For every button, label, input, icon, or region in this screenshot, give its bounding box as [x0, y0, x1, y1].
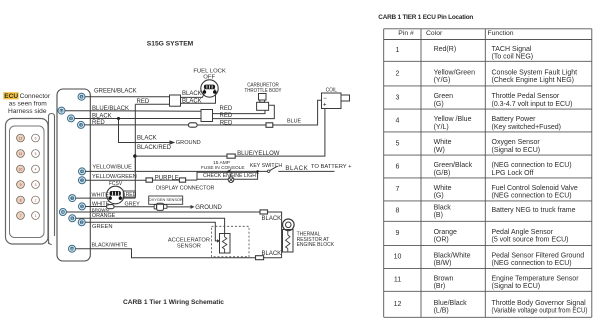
connector J1 fuel lock — [170, 95, 181, 106]
fuel lock solenoid valve — [201, 80, 218, 97]
svg-text:2: 2 — [35, 198, 37, 202]
svg-text:TO BATTERY +: TO BATTERY + — [311, 164, 352, 170]
connector pin 6 — [32, 134, 40, 142]
svg-text:(To coil NEG): (To coil NEG) — [492, 54, 534, 61]
wire RED throttle 1 — [213, 110, 266, 113]
table row pin 6 — [396, 162, 572, 177]
oxygen sensor label box — [149, 196, 183, 204]
connector pin 8 — [17, 196, 25, 204]
wire BLUE/YELLOW to coil positive — [135, 155, 227, 157]
wire PURPLE — [153, 179, 180, 181]
svg-text:(Y/L): (Y/L) — [434, 124, 449, 131]
svg-text:Yellow /Blue: Yellow /Blue — [434, 116, 472, 123]
ECU connector shell — [6, 119, 49, 245]
svg-text:Engine Temperature Sensor: Engine Temperature Sensor — [492, 276, 580, 283]
table row pin 3 — [396, 93, 573, 108]
wire RED tap to fuel-lock connector — [135, 103, 169, 105]
svg-text:(B/W): (B/W) — [434, 260, 452, 267]
inline connector on BROWN wire — [260, 210, 268, 214]
svg-text:BLACK: BLACK — [137, 135, 157, 141]
svg-text:Blue/Black: Blue/Black — [434, 300, 468, 307]
connector J2 carburetor throttle body — [201, 110, 213, 122]
key switch — [268, 170, 270, 172]
table row pin 10 — [394, 253, 585, 268]
wiper arrow — [217, 239, 220, 242]
connector pin 4 — [32, 165, 40, 173]
svg-text:(L/B): (L/B) — [434, 308, 449, 315]
connector pin 7 — [17, 212, 25, 220]
svg-text:5: 5 — [35, 152, 37, 156]
svg-text:Throttle Body Governor Signal: Throttle Body Governor Signal — [492, 300, 587, 307]
svg-text:BLACK/WHITE: BLACK/WHITE — [92, 242, 128, 248]
table row pin 8 — [396, 205, 576, 220]
wire BLACK to thermal resistor — [268, 212, 282, 258]
inline connector on BLUE wire — [266, 123, 273, 128]
svg-text:11: 11 — [19, 152, 23, 156]
svg-text:5: 5 — [396, 140, 400, 147]
connector pin 11 — [17, 150, 25, 158]
svg-text:(G/B): (G/B) — [434, 170, 451, 177]
inline connector on WHITE wire — [107, 205, 114, 209]
svg-text:11: 11 — [61, 210, 64, 214]
label ECU Connector as seen from Harness side — [3, 92, 51, 115]
svg-text:(W): (W) — [434, 147, 445, 154]
connector pin 1 — [32, 212, 40, 220]
svg-text:6: 6 — [35, 136, 37, 140]
svg-text:10: 10 — [19, 167, 23, 171]
inline connector on RED wire — [189, 123, 198, 127]
wire oxygen sensor to ground — [167, 206, 191, 208]
svg-text:(Br): (Br) — [434, 283, 446, 290]
svg-text:BLACK: BLACK — [182, 99, 202, 105]
thermal resistor body — [283, 230, 294, 253]
junction on BLACK wire — [117, 117, 120, 120]
svg-text:GREY: GREY — [125, 201, 141, 207]
svg-text:CARB 1 TIER 1 ECU Pin Location: CARB 1 TIER 1 ECU Pin Location — [378, 14, 473, 21]
svg-text:Red(R): Red(R) — [434, 46, 457, 53]
svg-text:ENGINE BLOCK: ENGINE BLOCK — [297, 242, 335, 248]
svg-text:YELLOW/BLUE: YELLOW/BLUE — [92, 164, 132, 170]
power vertical line — [134, 104, 136, 198]
wire BLACK branch to ground — [119, 119, 170, 143]
svg-text:LPG Lock Off: LPG Lock Off — [492, 170, 534, 177]
svg-text:12: 12 — [60, 109, 64, 113]
svg-text:1: 1 — [396, 47, 400, 54]
svg-text:Oxygen Sensor: Oxygen Sensor — [492, 139, 541, 146]
ECU pin 4 — [79, 168, 86, 175]
svg-text:3: 3 — [396, 94, 400, 101]
svg-text:Black: Black — [434, 205, 452, 212]
svg-text:Battery Power: Battery Power — [492, 116, 537, 123]
table row pin 9 — [396, 229, 569, 244]
svg-text:(OR): (OR) — [434, 237, 449, 244]
svg-text:Harness side: Harness side — [8, 108, 47, 115]
svg-text:SENSOR: SENSOR — [177, 243, 201, 249]
table row pin 4 — [396, 116, 561, 131]
svg-text:(0.3-4.7 volt input to ECU): (0.3-4.7 volt input to ECU) — [492, 101, 573, 108]
check engine light box — [197, 171, 258, 180]
svg-text:GREEN: GREEN — [92, 224, 113, 230]
wire YELLOW/GREEN pin2 to display connector — [86, 179, 147, 181]
svg-text:BLACK: BLACK — [92, 114, 112, 120]
wire RED pin1 TACH to coil — [85, 124, 189, 126]
svg-text:BLUE: BLUE — [287, 119, 301, 125]
ECU pin 8 — [68, 115, 75, 122]
wire BLACK to battery — [278, 170, 334, 172]
svg-text:8: 8 — [396, 208, 400, 215]
svg-text:YELLOW/GREEN: YELLOW/GREEN — [92, 174, 137, 180]
connector box around RED label — [123, 191, 135, 197]
svg-text:Green/Black: Green/Black — [434, 162, 473, 169]
connector pin 5 — [32, 150, 40, 158]
svg-text:Throttle Pedal Sensor: Throttle Pedal Sensor — [492, 93, 560, 100]
connector pin 2 — [32, 196, 40, 204]
ECU pin table grid — [384, 29, 592, 318]
svg-text:(Check Engine Light NEG): (Check Engine Light NEG) — [492, 77, 574, 84]
svg-text:(NEG connection to ECU): (NEG connection to ECU) — [492, 162, 572, 169]
svg-text:ORANGE: ORANGE — [92, 213, 116, 219]
harness-side connector face frame — [57, 89, 90, 261]
svg-text:6: 6 — [396, 163, 400, 170]
wire BLACK fuel lock right — [181, 94, 216, 104]
svg-text:Pedal Angle Sensor: Pedal Angle Sensor — [492, 229, 554, 236]
svg-text:BLACK: BLACK — [182, 91, 202, 97]
ECU pin 5 — [79, 203, 86, 210]
ECU connector side bracket — [49, 114, 55, 245]
ECU pin 11 — [59, 209, 66, 216]
svg-text:Orange: Orange — [434, 229, 457, 236]
svg-text:Color: Color — [426, 30, 443, 37]
svg-text:TACH Signal: TACH Signal — [492, 46, 532, 53]
check engine lamp — [228, 171, 234, 182]
svg-text:(G): (G) — [434, 101, 444, 108]
svg-text:Green: Green — [434, 93, 454, 100]
wire WHITE pin7 to FCSV — [76, 197, 109, 199]
svg-text:(Signal to ECU): (Signal to ECU) — [492, 283, 541, 290]
svg-text:(B): (B) — [434, 212, 443, 219]
svg-text:WHITE: WHITE — [92, 193, 110, 199]
wire BLUE/BLACK pin12 to throttle connector — [65, 110, 201, 113]
svg-text:CARB 1 Tier 1 Wiring Schematic: CARB 1 Tier 1 Wiring Schematic — [123, 299, 224, 306]
wire BLACK bottom to thermal resistor — [264, 257, 282, 259]
ECU connector inner face — [10, 126, 45, 238]
svg-text:GREEN/BLACK: GREEN/BLACK — [94, 89, 137, 95]
svg-text:BLACK/RED: BLACK/RED — [137, 145, 172, 151]
ECU pin 12 — [58, 107, 65, 114]
svg-text:9: 9 — [20, 183, 22, 187]
svg-text:Battery NEG to truck frame: Battery NEG to truck frame — [492, 207, 576, 214]
wire YELLOW/BLUE pin4 battery power — [86, 170, 268, 172]
svg-text:(NEG connection to ECU): (NEG connection to ECU) — [492, 193, 572, 200]
table row pin 11 — [394, 276, 579, 291]
svg-text:BLUE/YELLOW: BLUE/YELLOW — [237, 151, 280, 157]
wire BLACK fuel lock left — [181, 94, 205, 98]
svg-text:Console System Fault Light: Console System Fault Light — [492, 69, 578, 76]
ECU pin 3 — [78, 219, 85, 226]
wire GREY to oxygen sensor — [114, 206, 154, 208]
svg-text:OXYGEN SENSOR: OXYGEN SENSOR — [149, 197, 183, 202]
svg-text:10: 10 — [394, 254, 402, 261]
fuse 15 AMP symbol — [227, 169, 231, 173]
display connector half 1 — [146, 178, 153, 182]
svg-text:Fuel Control Solenoid Valve: Fuel Control Solenoid Valve — [492, 185, 578, 192]
wire BLUE to coil negative — [273, 100, 322, 125]
svg-text:Pin #: Pin # — [398, 30, 414, 37]
svg-text:7: 7 — [20, 214, 22, 218]
svg-text:RED: RED — [137, 99, 150, 105]
svg-text:8: 8 — [20, 198, 22, 202]
ECU pin 7 — [69, 195, 76, 202]
svg-text:4: 4 — [396, 117, 400, 124]
svg-text:Connector: Connector — [20, 93, 51, 100]
table row pin 5 — [396, 139, 541, 154]
svg-text:+: + — [323, 102, 327, 109]
accelerator sensor dashed box — [212, 226, 250, 256]
table row pin 12 — [394, 300, 588, 315]
svg-text:COIL: COIL — [326, 88, 337, 94]
svg-text:Pedal Sensor Filtered Ground: Pedal Sensor Filtered Ground — [492, 253, 585, 260]
connector pin 10 — [17, 165, 25, 173]
svg-text:3: 3 — [35, 183, 37, 187]
svg-text:S15G SYSTEM: S15G SYSTEM — [147, 41, 194, 48]
svg-text:GROUND: GROUND — [176, 140, 201, 146]
svg-text:9: 9 — [396, 230, 400, 237]
svg-text:BLACK: BLACK — [262, 251, 282, 257]
wire WHITE pin5 to oxygen sensor — [86, 206, 107, 208]
inline connector on bottom BLACK wire — [256, 256, 264, 260]
wire BLUE/YELLOW right segment — [235, 109, 325, 157]
thermal resistor ring terminal — [283, 219, 295, 231]
wire ORANGE pin9 to accelerator sensor — [76, 218, 225, 233]
svg-text:12: 12 — [19, 136, 23, 140]
svg-text:OFF: OFF — [203, 75, 215, 81]
wire BLACK pin8 to throttle connector — [75, 118, 202, 120]
ECU pin 6 — [78, 93, 85, 100]
svg-text:as seen from: as seen from — [9, 101, 48, 108]
svg-text:RED: RED — [92, 120, 105, 126]
svg-text:1: 1 — [35, 214, 37, 218]
svg-text:GROUND: GROUND — [195, 205, 222, 211]
ECU pin 9 — [69, 215, 76, 222]
table row pin 1 — [396, 46, 534, 61]
svg-text:White: White — [434, 139, 452, 146]
svg-text:2: 2 — [396, 70, 400, 77]
table row pin 7 — [396, 185, 578, 200]
connector pin 3 — [32, 181, 40, 189]
wire GREEN pin3 to accelerator wiper — [85, 222, 217, 241]
connector pin 9 — [17, 181, 25, 189]
svg-text:RED: RED — [126, 192, 137, 198]
table row pin 2 — [396, 69, 578, 84]
svg-text:10: 10 — [70, 247, 74, 251]
wire BROWN pin11 engine temperature — [66, 211, 260, 213]
svg-text:KEY SWITCH: KEY SWITCH — [250, 163, 282, 169]
svg-text:Black/White: Black/White — [434, 253, 471, 260]
power vertical to BLUE/YELLOW — [134, 156, 136, 171]
wire RED FCSV to power — [122, 197, 135, 199]
FCSV fuel control solenoid valve — [107, 186, 125, 204]
wire RED throttle 2 — [213, 105, 275, 118]
svg-text:7: 7 — [396, 186, 400, 193]
ground arrow — [170, 140, 176, 144]
display connector half 2 — [179, 178, 185, 182]
svg-text:11: 11 — [394, 277, 401, 284]
wire RED to second connector — [197, 124, 266, 126]
junction battery power — [133, 154, 136, 157]
junction at check engine box right — [256, 170, 258, 172]
ground arrow oxygen sensor — [191, 205, 195, 209]
svg-text:(Signal to ECU): (Signal to ECU) — [492, 147, 541, 154]
svg-text:(Y/G): (Y/G) — [434, 77, 451, 84]
connector pin 12 — [17, 134, 25, 142]
oxygen sensor symbol — [154, 203, 167, 210]
svg-text:ECU: ECU — [4, 93, 18, 100]
svg-text:Yellow/Green: Yellow/Green — [434, 69, 475, 76]
svg-text:Brown: Brown — [434, 276, 454, 283]
wire GREEN/BLACK pin6 to fuel-lock connector — [85, 96, 170, 98]
ECU pin 1 — [78, 121, 85, 128]
svg-text:4: 4 — [35, 167, 37, 171]
svg-text:RED: RED — [220, 121, 233, 127]
coil — [322, 93, 350, 109]
wire BLACK/WHITE pin10 filtered ground — [76, 249, 256, 258]
svg-text:BLACK: BLACK — [285, 165, 308, 172]
svg-text:FUSE IN CONSOLE: FUSE IN CONSOLE — [201, 165, 245, 171]
svg-text:(Key switched+Fused): (Key switched+Fused) — [492, 124, 561, 131]
inline connector on BLUE/YELLOW — [227, 154, 235, 158]
wire PURPLE to check engine light — [186, 179, 197, 181]
accelerator sensor potentiometer — [220, 234, 231, 254]
svg-text:(Variable voltage output from: (Variable voltage output from ECU) — [492, 308, 588, 315]
carburetor throttle body symbol — [257, 94, 269, 111]
svg-text:White: White — [434, 185, 452, 192]
svg-text:RED: RED — [220, 113, 233, 119]
svg-text:(5 volt source from ECU): (5 volt source from ECU) — [492, 237, 569, 244]
svg-text:BROWN: BROWN — [92, 208, 109, 213]
svg-text:BLACK: BLACK — [262, 216, 282, 222]
svg-text:RED: RED — [220, 106, 233, 112]
svg-text:Function: Function — [488, 30, 514, 37]
ECU pin 10 — [69, 245, 76, 252]
svg-text:THROTTLE BODY: THROTTLE BODY — [245, 88, 283, 94]
svg-text:12: 12 — [394, 301, 402, 308]
svg-text:DISPLAY CONNECTOR: DISPLAY CONNECTOR — [156, 186, 215, 192]
svg-text:(NEG connection to ECU): (NEG connection to ECU) — [492, 260, 572, 267]
svg-text:PURPLE: PURPLE — [155, 175, 179, 181]
svg-text:(G): (G) — [434, 193, 444, 200]
svg-text:BLUE/BLACK: BLUE/BLACK — [92, 106, 129, 112]
ECU pin 2 — [79, 177, 86, 184]
